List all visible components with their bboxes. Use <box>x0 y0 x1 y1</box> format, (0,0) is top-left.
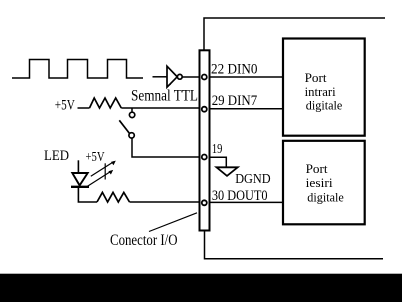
LED D1 triangle <box>72 173 87 185</box>
resistor R1 zigzag <box>90 98 122 108</box>
wire pin 30 to output port box <box>210 201 283 203</box>
port iesiri digitale box <box>283 141 365 225</box>
pin 30 contact <box>202 200 207 205</box>
switch S1 lever <box>119 120 129 133</box>
wire pin 19 to ground <box>210 157 227 167</box>
svg-text:intrari: intrari <box>305 84 336 99</box>
board top edge line <box>204 18 385 50</box>
LED D1 cathode bar <box>71 186 89 188</box>
LED emission arrow lower <box>87 171 111 186</box>
svg-text:LED: LED <box>44 148 69 164</box>
bottom black bar <box>0 274 402 302</box>
square wave signal source <box>12 60 143 79</box>
svg-text:+5V: +5V <box>86 150 105 165</box>
svg-text:19: 19 <box>212 141 223 156</box>
svg-text:+5V: +5V <box>55 98 75 114</box>
port intrari digitale box <box>283 39 365 136</box>
connector bottom stem and board bottom line <box>205 231 384 259</box>
switch S1 stub from wire <box>131 108 133 112</box>
wire resistor R2 to connector pin 30 <box>130 201 200 203</box>
wire resistor R1 to connector pin 29 <box>121 107 199 109</box>
arrow connector vertical segment <box>104 163 106 179</box>
svg-text:iesiri: iesiri <box>306 175 333 190</box>
wire inverter output to connector pin 22 <box>182 76 199 78</box>
wire pin 29 to input port box <box>210 108 283 110</box>
resistor R2 zigzag <box>97 192 130 202</box>
wire switch to pin 19 row <box>132 138 200 157</box>
svg-text:30 DOUT0: 30 DOUT0 <box>212 188 268 204</box>
svg-text:Semnal TTL: Semnal TTL <box>131 88 198 105</box>
connector J1 body <box>200 50 210 230</box>
svg-text:digitale: digitale <box>306 98 343 113</box>
tick mark above label <box>167 84 171 86</box>
svg-text:DGND: DGND <box>235 172 271 187</box>
pin 19 contact <box>202 155 207 160</box>
ground DGND symbol <box>217 167 238 176</box>
inverter U1 triangle <box>167 66 177 87</box>
wire inverter input <box>153 76 168 78</box>
switch S1 top terminal <box>129 112 134 117</box>
svg-text:Port: Port <box>305 70 327 85</box>
pin 29 contact <box>202 107 207 112</box>
wire +5V to LED anode <box>77 160 79 173</box>
inverter U1 output bubble <box>177 74 182 79</box>
svg-text:22 DIN0: 22 DIN0 <box>211 62 258 78</box>
svg-text:Port: Port <box>306 161 328 176</box>
svg-text:29 DIN7: 29 DIN7 <box>212 93 258 109</box>
wire pin 22 to input port box <box>210 76 283 78</box>
wire LED cathode down and right <box>78 188 97 202</box>
pin 22 contact <box>202 75 207 80</box>
switch S1 bottom terminal <box>129 133 134 138</box>
svg-text:digitale: digitale <box>307 190 344 205</box>
LED emission arrow upper <box>91 162 114 176</box>
wire +5V to resistor R1 <box>78 107 90 109</box>
svg-text:Conector I/O: Conector I/O <box>110 232 178 249</box>
leader line to connector <box>149 213 197 232</box>
